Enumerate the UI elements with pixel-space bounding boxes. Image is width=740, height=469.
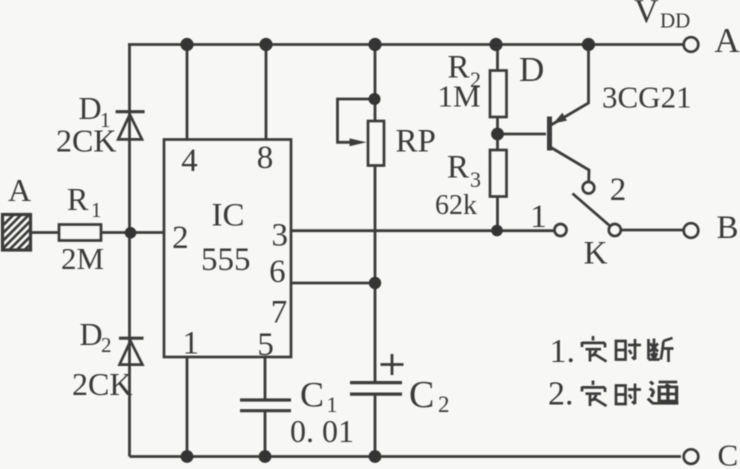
svg-text:D: D (80, 316, 103, 352)
svg-text:K: K (584, 236, 608, 272)
svg-text:2CK: 2CK (72, 366, 132, 402)
svg-text:C: C (409, 374, 434, 416)
svg-text:1: 1 (530, 199, 547, 235)
svg-text:2CK: 2CK (56, 123, 116, 159)
svg-text:3CG21: 3CG21 (602, 80, 692, 115)
svg-text:2: 2 (438, 392, 450, 417)
svg-text:RP: RP (396, 124, 436, 160)
svg-text:2: 2 (610, 172, 627, 208)
svg-text:7: 7 (271, 295, 288, 331)
svg-text:D: D (519, 50, 544, 89)
svg-text:555: 555 (201, 242, 251, 278)
svg-text:IC: IC (212, 198, 245, 234)
svg-text:1: 1 (182, 326, 199, 362)
svg-text:62k: 62k (435, 190, 477, 221)
svg-text:2.: 2. (548, 376, 574, 413)
svg-text:0. 01: 0. 01 (290, 413, 354, 449)
svg-text:5: 5 (257, 327, 274, 363)
svg-text:3: 3 (272, 218, 289, 254)
svg-text:2M: 2M (61, 241, 104, 276)
svg-text:A: A (714, 21, 740, 60)
svg-text:A: A (8, 172, 31, 208)
svg-text:C: C (718, 438, 739, 469)
svg-text:D: D (79, 90, 102, 126)
svg-text:1.: 1. (550, 333, 576, 370)
svg-text:C: C (300, 375, 324, 415)
svg-text:R: R (447, 150, 469, 186)
svg-text:6: 6 (269, 254, 286, 290)
svg-text:R: R (67, 181, 89, 217)
svg-text:DD: DD (660, 9, 690, 33)
svg-text:3: 3 (470, 167, 481, 192)
svg-text:B: B (716, 210, 738, 246)
svg-text:4: 4 (181, 143, 198, 179)
svg-text:2: 2 (172, 220, 189, 256)
svg-text:1: 1 (91, 198, 102, 222)
svg-text:2: 2 (101, 333, 112, 357)
svg-text:1M: 1M (438, 79, 481, 114)
svg-text:8: 8 (257, 140, 274, 176)
svg-text:V: V (634, 0, 659, 30)
